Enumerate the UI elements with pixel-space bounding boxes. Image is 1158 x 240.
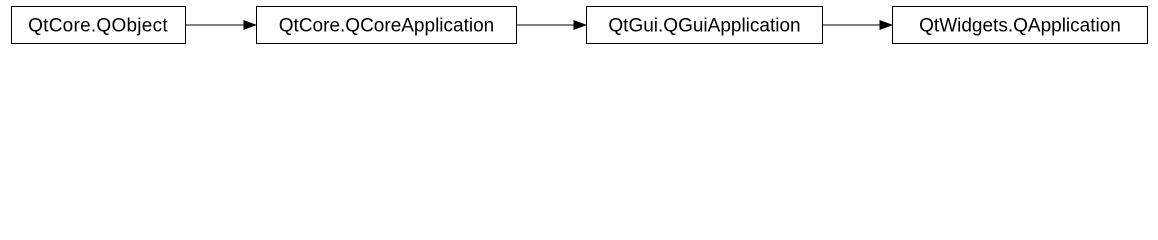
node QtWidgets.QApplication box	[893, 7, 1148, 44]
node QtCore.QCoreApplication box	[257, 7, 517, 44]
arrowhead QGuiApplication->QApplication	[880, 21, 892, 30]
arrowhead QObject->QCoreApplication	[244, 21, 256, 30]
node QtCore.QObject box	[12, 7, 186, 44]
background	[0, 0, 1158, 50]
svg-text:QtGui.QGuiApplication: QtGui.QGuiApplication	[608, 16, 800, 37]
edge wire QGuiApplication->QApplication	[823, 24, 882, 26]
svg-text:QtWidgets.QApplication: QtWidgets.QApplication	[919, 16, 1121, 37]
inheritance diagram	[0, 0, 1158, 50]
svg-text:QtCore.QObject: QtCore.QObject	[28, 16, 168, 37]
edge wire QCoreApplication->QGuiApplication	[517, 24, 576, 26]
arrowhead QCoreApplication->QGuiApplication	[574, 21, 586, 30]
node QtGui.QGuiApplication box	[587, 7, 823, 44]
edge wire QObject->QCoreApplication	[186, 24, 246, 26]
svg-text:QtCore.QCoreApplication: QtCore.QCoreApplication	[279, 16, 494, 37]
